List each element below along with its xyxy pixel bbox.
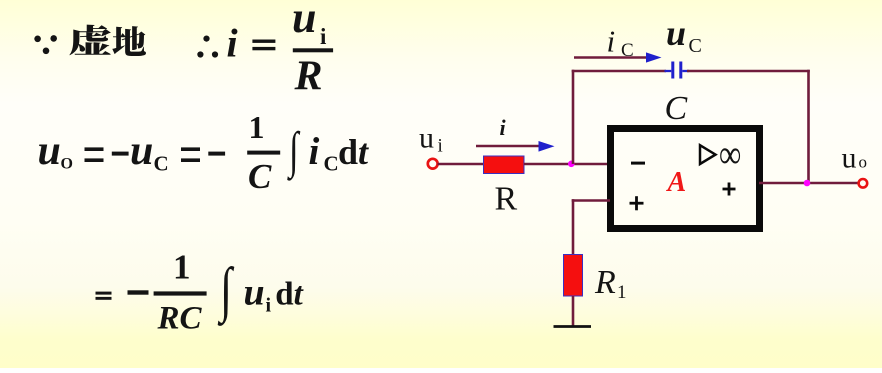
svg-text:i: i: [309, 130, 320, 173]
wire input to R: [438, 163, 484, 166]
node uo output terminal: [859, 179, 868, 188]
node inverting junction dot: [568, 161, 575, 168]
op-amp output polarity mark: [723, 183, 736, 196]
op-amp non-inverting input mark: [630, 196, 644, 210]
svg-text:1: 1: [617, 282, 627, 303]
svg-text:t: t: [358, 132, 369, 172]
svg-text:1: 1: [249, 109, 265, 145]
svg-text:C: C: [621, 40, 634, 61]
wire feedback right vertical: [807, 70, 810, 183]
svg-text:u: u: [130, 128, 153, 174]
svg-text:u: u: [842, 142, 857, 175]
svg-text:t: t: [294, 276, 304, 312]
svg-text:∞: ∞: [719, 132, 741, 177]
ground: [554, 325, 592, 328]
label u_i input: [419, 121, 443, 156]
svg-text:C: C: [154, 151, 169, 175]
svg-text:C: C: [689, 35, 702, 57]
infinity symbol: [719, 132, 741, 177]
wire op-amp output: [759, 182, 859, 185]
svg-text:R: R: [294, 53, 323, 99]
svg-text:u: u: [666, 13, 686, 53]
svg-text:i: i: [607, 24, 616, 59]
node ui input terminal: [428, 159, 438, 169]
formula line 2: uO = -uC = -(1/C) integral iC dt: [38, 109, 370, 196]
svg-text:u: u: [38, 128, 61, 174]
svg-text:C: C: [324, 151, 339, 175]
wire feedback top left: [572, 70, 666, 73]
op-amp ideal triangle symbol: [700, 145, 716, 164]
svg-text:C: C: [665, 90, 688, 127]
svg-text:R: R: [594, 264, 616, 301]
wire feedback top right: [687, 70, 810, 73]
resistor R1: [564, 255, 583, 297]
svg-text:A: A: [666, 167, 687, 198]
current arrow i: [476, 141, 555, 152]
svg-text:i: i: [266, 294, 272, 316]
svg-text:i: i: [320, 24, 327, 49]
formula line 1: because virtual ground, therefore i = ui/R: [34, 0, 333, 99]
svg-text:C: C: [248, 157, 272, 196]
svg-text:u: u: [292, 0, 316, 42]
label u_C: [666, 13, 702, 57]
resistor R: [484, 156, 525, 174]
current arrow iC: [574, 52, 662, 62]
svg-text:u: u: [419, 121, 434, 154]
formula line 3: = -(1/RC) integral ui dt: [96, 248, 304, 337]
label i_C: [607, 24, 634, 62]
svg-text:u: u: [244, 271, 265, 313]
svg-text:i: i: [500, 115, 507, 140]
wire non-inverting horizontal: [572, 199, 610, 202]
svg-text:O: O: [61, 155, 73, 172]
wire feedback left vertical: [572, 70, 575, 164]
svg-text:R: R: [495, 181, 518, 218]
svg-text:d: d: [275, 276, 293, 312]
wire R to op-amp inverting input: [524, 163, 610, 166]
wire R1 to ground: [572, 296, 575, 327]
op-amp U1 box: [611, 129, 760, 229]
svg-text:RC: RC: [157, 301, 203, 337]
label u_o output: [842, 142, 868, 175]
svg-text:o: o: [859, 153, 868, 172]
capacitor C: [665, 62, 690, 79]
op-amp inverting input mark: [631, 162, 645, 165]
node output junction dot: [804, 180, 811, 187]
wire non-inverting vertical: [572, 199, 575, 255]
svg-text:d: d: [338, 132, 358, 172]
svg-text:1: 1: [173, 248, 191, 287]
svg-text:i: i: [227, 20, 238, 65]
label R_1: [594, 264, 627, 303]
svg-text:i: i: [438, 136, 443, 157]
